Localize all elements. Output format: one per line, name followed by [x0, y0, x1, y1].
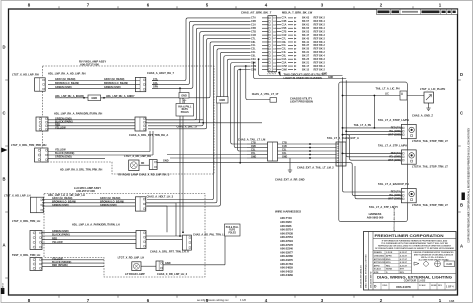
svg-text:A06-5836: A06-5836: [280, 224, 292, 228]
svg-text:ENG: ENG: [386, 259, 391, 261]
svg-text:TAIL_LT_A_STP_LN_PI: TAIL_LT_A_STP_LN_PI: [369, 205, 398, 209]
svg-text:GND: GND: [163, 160, 169, 163]
svg-text:A9: A9: [273, 44, 275, 47]
svg-text:LTGT/A_TAIL_STOP_TRN_LT: LTGT/A_TAIL_STOP_TRN_LT: [412, 203, 448, 207]
svg-text:GND: GND: [91, 96, 97, 100]
svg-text:HARNESS: HARNESS: [369, 212, 382, 216]
svg-text:SHT: SHT: [400, 269, 405, 271]
svg-text:HDL_LNP_LH_A_PARK/DRL/TURN_LH: HDL_LNP_LH_A_PARK/DRL/TURN_LH: [72, 223, 120, 227]
svg-text:NONE: NONE: [386, 269, 393, 271]
svg-text:APPROVED: APPROVED: [374, 258, 386, 261]
svg-text:APPROVED RELEASE DATE: APPROVED RELEASE DATE: [393, 205, 396, 231]
svg-text:A: A: [2, 243, 5, 248]
svg-text:CHAS_A_UTIL_LT_1T: CHAS_A_UTIL_LT_1T: [252, 92, 279, 96]
svg-text:C9B: C9B: [251, 146, 256, 148]
svg-text:MFG: MFG: [386, 262, 391, 264]
svg-text:RLPS: RLPS: [229, 230, 235, 232]
svg-text:BK-15: BK-15: [302, 68, 310, 71]
svg-text:LIGHT IS USED ON CHASSIS: LIGHT IS USED ON CHASSIS: [284, 76, 322, 80]
svg-text:MDL/A_T_BRK_BK_LW: MDL/A_T_BRK_BK_LW: [282, 11, 313, 15]
svg-text:LIGHT PROVISION: LIGHT PROVISION: [290, 99, 313, 103]
svg-text:HDL_LNP_RH_A_GNDIY: HDL_LNP_RH_A_GNDIY: [106, 95, 135, 98]
svg-text:PAS & PALL: PAS & PALL: [226, 226, 239, 229]
svg-text:FREIGHTLINER CORPORATION: FREIGHTLINER CORPORATION: [375, 234, 444, 238]
svg-text:CHAS_X_RD_LNP_LH_3: CHAS_X_RD_LNP_LH_3: [157, 272, 188, 276]
svg-text:CHECKED: CHECKED: [374, 256, 385, 258]
svg-text:CHAS_A/T_BRK_BK/_T: CHAS_A/T_BRK_BK/_T: [241, 11, 272, 15]
svg-text:OF FREIGHTLINER CORPORATION AN: OF FREIGHTLINER CORPORATION AND IS SUBJE…: [375, 247, 455, 250]
svg-text:D: D: [2, 45, 5, 50]
svg-text:TAIL_LT_A_PH: TAIL_LT_A_PH: [354, 124, 372, 127]
svg-text:A06-23376: A06-23376: [280, 258, 293, 262]
svg-text:A06-24969: A06-24969: [280, 273, 293, 277]
svg-text:GREEN (GND): GREEN (GND): [55, 86, 72, 89]
svg-text:RLPS: RLPS: [182, 109, 189, 111]
svg-text:A6: A6: [273, 34, 275, 37]
svg-text:HD_LNP_RH_X_DRL_TRN_PRK_RH: HD_LNP_RH_X_DRL_TRN_PRK_RH: [60, 169, 102, 172]
svg-text:A7: A7: [273, 37, 275, 40]
svg-text:REL: REL: [386, 265, 391, 267]
svg-text:A06-5963-000: A06-5963-000: [367, 216, 384, 220]
svg-text:GND: GND: [282, 157, 287, 159]
svg-text:LIC: LIC: [385, 94, 389, 96]
svg-text:LTGT_X_DRL_TRN_LH: LTGT_X_DRL_TRN_LH: [12, 219, 40, 223]
svg-text:TAIL_LT_A_STOP_LA/PH: TAIL_LT_A_STOP_LA/PH: [378, 118, 409, 122]
svg-text:IF INFORMATION FURNISHED HEREI: IF INFORMATION FURNISHED HEREIN IS PROPR…: [382, 239, 448, 242]
svg-text:A: A: [460, 244, 463, 249]
svg-text:A13: A13: [273, 58, 277, 61]
svg-text:CHAS_A_HDLT_LH_3: CHAS_A_HDLT_LH_3: [147, 195, 174, 199]
svg-text:A2: A2: [273, 20, 275, 23]
svg-text:WIRE HARNESSES: WIRE HARNESSES: [275, 210, 301, 214]
svg-text:C2L: C2L: [282, 153, 287, 155]
svg-text:C: C: [2, 111, 5, 116]
svg-text:1 OF 4: 1 OF 4: [446, 286, 454, 289]
svg-text:A06-TY40: A06-TY40: [280, 216, 292, 220]
svg-text:LTGT_X_HD_LNP_RH: LTGT_X_HD_LNP_RH: [12, 72, 39, 76]
svg-text:TAIL_LT_A_STP_LA/PH: TAIL_LT_A_STP_LA/PH: [378, 144, 407, 148]
svg-text:BROWN (LO_BEAM): BROWN (LO_BEAM): [55, 82, 79, 85]
svg-text:TAIL_LT_A_CHAS_EXT_A: TAIL_LT_A_CHAS_EXT_A: [327, 136, 359, 140]
svg-text:POLES: POLES: [181, 112, 189, 114]
svg-text:GREEN (GND): GREEN (GND): [52, 230, 69, 233]
svg-text:YELLOW: YELLOW: [52, 241, 63, 244]
svg-text:C7B: C7B: [251, 143, 256, 145]
svg-text:A06-27694: A06-27694: [280, 239, 293, 243]
svg-text:GREEN (GND): GREEN (GND): [100, 204, 117, 207]
svg-text:A06-24532: A06-24532: [280, 269, 293, 273]
svg-text:CHAS_A_GND_Z: CHAS_A_GND_Z: [412, 114, 433, 118]
svg-text:GREEN (GND): GREEN (GND): [104, 86, 121, 89]
svg-text:C7B: C7B: [282, 143, 287, 145]
svg-text:APPD: APPD: [374, 264, 380, 267]
svg-text:SCALE: SCALE: [374, 268, 382, 271]
svg-text:LTGT_X_HD_LNP_LH: LTGT_X_HD_LNP_LH: [4, 194, 31, 198]
svg-text:A06-21784: A06-21784: [280, 262, 293, 266]
svg-text:GRN: GRN: [153, 87, 158, 89]
svg-text:BROWN (LO_BEAM): BROWN (LO_BEAM): [104, 82, 128, 85]
svg-text:HDL_LNP_RH_A_INGRD: HDL_LNP_RH_A_INGRD: [55, 95, 84, 98]
svg-text:GRAY (HI_BEAM): GRAY (HI_BEAM): [104, 78, 124, 81]
svg-text:C7A: C7A: [153, 78, 158, 81]
svg-text:GND: GND: [251, 157, 256, 159]
svg-text:4-16-97: 4-16-97: [400, 255, 408, 258]
svg-text:A12: A12: [273, 54, 277, 57]
svg-text:C9M: C9M: [251, 68, 256, 71]
svg-text:GND: GND: [165, 262, 171, 265]
svg-text:CHAS_A_DRL_FRT_TRN_RH_A: CHAS_A_DRL_FRT_TRN_RH_A: [129, 133, 168, 137]
svg-text:RED (TA): RED (TA): [391, 191, 401, 194]
svg-text:C9M: C9M: [282, 68, 287, 71]
svg-text:LTGT/A_TAIL_STOP_TRN_LT: LTGT/A_TAIL_STOP_TRN_LT: [412, 139, 448, 143]
svg-text:LP ROAD LAMP: LP ROAD LAMP: [125, 272, 145, 276]
svg-text:APPD: APPD: [386, 255, 392, 258]
svg-text:A06-32977: A06-32977: [280, 250, 293, 254]
svg-text:C: C: [460, 111, 463, 116]
svg-text:CHAS_A_TAIL_LT_LM: CHAS_A_TAIL_LT_LM: [238, 138, 265, 142]
svg-text:CHAS_EXT_A_TAIL_LT_LM_2: CHAS_EXT_A_TAIL_LT_LM_2: [297, 165, 334, 169]
svg-text:A06-25717-000: A06-25717-000: [76, 189, 95, 193]
svg-text:LTGT_X_RD_LNP_LH: LTGT_X_RD_LNP_LH: [118, 256, 145, 260]
svg-text:COPYRIGHT FREIGHTLINER CORPORA: COPYRIGHT FREIGHTLINER CORPORATION ALL R…: [468, 127, 471, 242]
svg-text:CAD: CAD: [446, 262, 452, 266]
svg-text:BLACK (PARK): BLACK (PARK): [52, 234, 70, 237]
svg-text:LRM 04: LRM 04: [1, 282, 4, 290]
svg-text:CHAS_A_HDLT_RH_7: CHAS_A_HDLT_RH_7: [147, 71, 174, 75]
svg-text:TAIL_LT_A_BACKUP_PH: TAIL_LT_A_BACKUP_PH: [378, 182, 409, 186]
svg-text:A06-27638: A06-27638: [280, 231, 293, 235]
svg-text:A06-24829: A06-24829: [280, 266, 293, 270]
svg-text:A06-22346: A06-22346: [280, 247, 293, 251]
svg-text:C1B: C1B: [282, 146, 287, 148]
svg-text:RD: RD: [141, 163, 145, 165]
svg-text:A06-28714: A06-28714: [280, 228, 293, 232]
svg-text:A06-27978: A06-27978: [280, 243, 293, 247]
svg-text:B: B: [460, 203, 463, 208]
svg-text:LTGT_X_DRL_TRN_PRK_RH: LTGT_X_DRL_TRN_PRK_RH: [11, 143, 47, 147]
svg-text:SCALE: SCALE: [419, 284, 426, 287]
svg-text:REF BK-2: REF BK-2: [314, 68, 326, 71]
svg-text:DRAWN: DRAWN: [374, 251, 382, 254]
svg-text:IT IS FURNISHED WITH THE UNDER: IT IS FURNISHED WITH THE UNDERSTANDING T…: [381, 242, 448, 245]
svg-text:LTGT/A_TAIL_STOP_TRN_LT: LTGT/A_TAIL_STOP_TRN_LT: [412, 164, 448, 168]
svg-text:YELLOW: YELLOW: [55, 127, 66, 130]
svg-text:A16: A16: [273, 68, 277, 71]
svg-text:CHAS_X_RD_LNP_RH_3: CHAS_X_RD_LNP_RH_3: [139, 173, 170, 177]
svg-text:D: D: [460, 72, 463, 77]
svg-text:A06-32366: A06-32366: [280, 254, 293, 258]
svg-text:GND: GND: [181, 94, 187, 97]
svg-text:CHAS_A_RD_PNL_TRN_LH_A: CHAS_A_RD_PNL_TRN_LH_A: [193, 233, 229, 236]
svg-text:4-18-97: 4-18-97: [400, 261, 408, 264]
svg-text:DWG: DWG: [383, 285, 388, 287]
svg-text:WHT (GND): WHT (GND): [388, 160, 401, 162]
svg-text:GREEN (GND): GREEN (GND): [52, 204, 69, 207]
svg-text:A10: A10: [273, 48, 277, 51]
svg-text:4-15-97: 4-15-97: [400, 251, 408, 254]
svg-text:4-17-97: 4-17-97: [400, 258, 408, 261]
svg-text:LTGT_A_LIC_PLATE: LTGT_A_LIC_PLATE: [420, 87, 446, 91]
svg-text:HDL_LNP_RH_A_PARK/DRL/TURN_RH: HDL_LNP_RH_A_PARK/DRL/TURN_RH: [54, 111, 102, 115]
svg-text:GND: GND: [219, 98, 225, 102]
svg-text:GRAY (HI_BEAM): GRAY (HI_BEAM): [55, 78, 75, 81]
svg-text:C3L: C3L: [251, 150, 256, 152]
svg-text:TAIL_LT_A_LIC_PH: TAIL_LT_A_LIC_PH: [376, 86, 400, 90]
svg-text:GND: GND: [322, 74, 327, 76]
svg-text:LTGT_X_RD_LNP_RH: LTGT_X_RD_LNP_RH: [124, 154, 151, 158]
svg-text:POLES: POLES: [228, 232, 236, 234]
svg-text:C3A: C3A: [153, 82, 158, 85]
svg-text:APPROVED: APPROVED: [374, 261, 386, 264]
svg-text:A06-27654: A06-27654: [280, 235, 293, 239]
svg-text:ae mfg chassis wiring rev: ae mfg chassis wiring rev: [197, 298, 229, 302]
svg-text:HDL_LNP_RH_A_HD_LNP_RH: HDL_LNP_RH_A_HD_LNP_RH: [48, 72, 86, 76]
svg-text:TEST_X_DRL_TRN_LH: TEST_X_DRL_TRN_LH: [12, 253, 40, 257]
svg-text:138: 138: [449, 299, 454, 303]
svg-text:D06-24078-000 CATALOG: D06-24078-000 CATALOG: [359, 265, 362, 288]
svg-text:RED (SPARE): RED (SPARE): [52, 264, 68, 267]
svg-text:DIAG, WIRING, EXTERNAL LIGHTIN: DIAG, WIRING, EXTERNAL LIGHTING: [365, 254, 368, 288]
svg-text:J.DOE: J.DOE: [386, 252, 393, 254]
svg-text:A3: A3: [273, 23, 275, 26]
svg-text:GND: GND: [328, 77, 333, 79]
svg-text:CHAS_X_DRL_1Y: CHAS_X_DRL_1Y: [177, 126, 198, 129]
svg-text:YEL (GND): YEL (GND): [389, 157, 401, 159]
svg-text:C3L: C3L: [282, 150, 287, 152]
svg-text:A06-25717-000: A06-25717-000: [80, 62, 99, 66]
svg-text:RV ROAD LAMP: RV ROAD LAMP: [118, 173, 138, 177]
svg-text:CONTOUR CLASS: CONTOUR CLASS: [404, 280, 426, 283]
svg-text:D06-24078: D06-24078: [396, 285, 411, 289]
svg-text:AVA & PALL: AVA & PALL: [178, 106, 192, 109]
svg-text:CHAS_EXT_A_RR_GND: CHAS_EXT_A_RR_GND: [275, 178, 305, 182]
svg-text:RED: RED: [52, 237, 57, 240]
svg-text:4-21-97: 4-21-97: [400, 264, 408, 267]
svg-text:C5L: C5L: [251, 153, 256, 155]
svg-text:D06-24078 SIM TO: D06-24078 SIM TO: [370, 271, 373, 288]
svg-text:1 1/8: 1 1/8: [240, 298, 246, 302]
svg-text:A06-58ZC: A06-58ZC: [280, 220, 292, 224]
svg-text:B: B: [2, 177, 5, 182]
svg-text:NONE: NONE: [431, 285, 437, 287]
